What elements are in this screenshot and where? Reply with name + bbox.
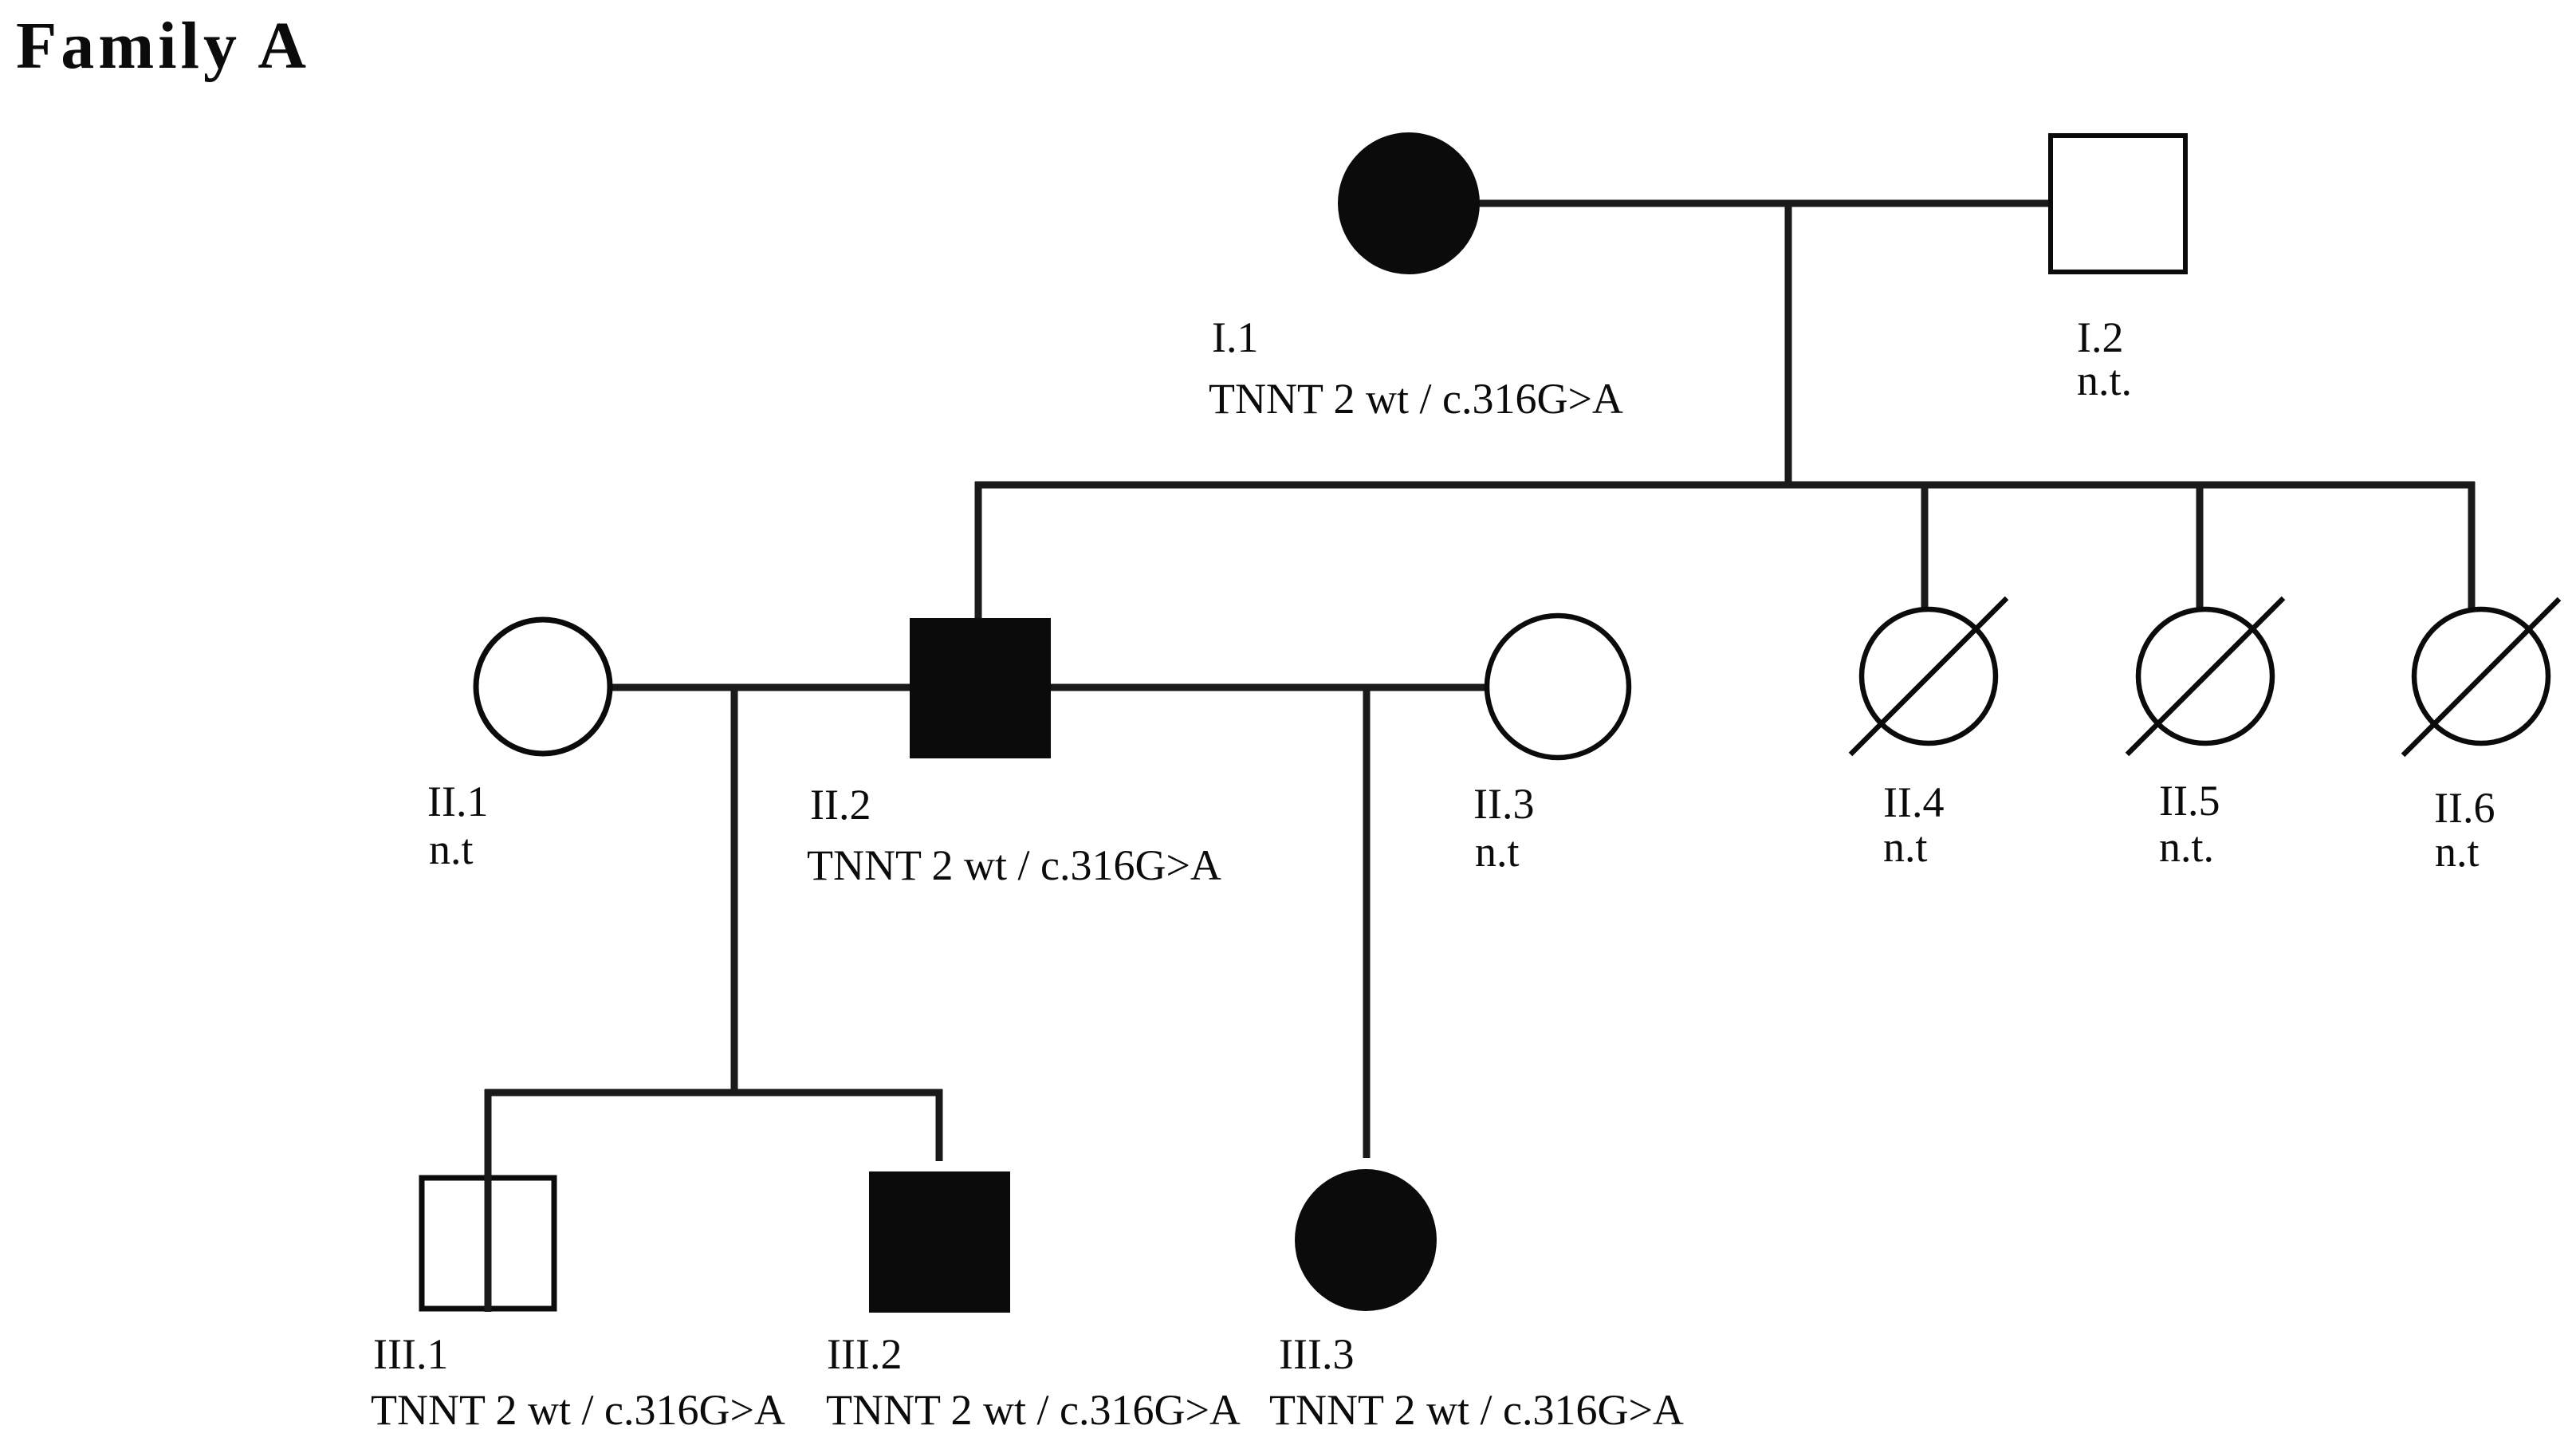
svg-text:III.3: III.3 xyxy=(1279,1330,1354,1378)
svg-text:II.2: II.2 xyxy=(810,781,871,829)
svg-text:II.1: II.1 xyxy=(427,778,488,825)
svg-text:n.t.: n.t. xyxy=(2159,823,2214,871)
svg-text:Family A: Family A xyxy=(16,9,310,83)
svg-text:TNNT 2 wt / c.316G>A: TNNT 2 wt / c.316G>A xyxy=(371,1386,785,1434)
svg-text:n.t: n.t xyxy=(2435,828,2480,876)
svg-text:n.t.: n.t. xyxy=(2077,356,2132,404)
svg-text:TNNT 2 wt / c.316G>A: TNNT 2 wt / c.316G>A xyxy=(807,841,1221,889)
svg-text:II.3: II.3 xyxy=(1473,780,1534,828)
svg-text:I.2: I.2 xyxy=(2077,313,2123,361)
svg-text:TNNT 2 wt / c.316G>A: TNNT 2 wt / c.316G>A xyxy=(1269,1386,1684,1434)
svg-text:II.6: II.6 xyxy=(2434,784,2495,832)
svg-text:III.1: III.1 xyxy=(373,1330,448,1378)
svg-text:n.t: n.t xyxy=(429,825,474,873)
svg-text:II.5: II.5 xyxy=(2159,777,2220,825)
svg-text:n.t: n.t xyxy=(1475,828,1520,876)
svg-text:TNNT 2 wt / c.316G>A: TNNT 2 wt / c.316G>A xyxy=(826,1386,1241,1434)
svg-text:n.t: n.t xyxy=(1883,823,1928,871)
svg-text:II.4: II.4 xyxy=(1883,778,1944,826)
svg-text:TNNT 2 wt / c.316G>A: TNNT 2 wt / c.316G>A xyxy=(1209,375,1623,423)
svg-text:I.1: I.1 xyxy=(1212,313,1258,361)
svg-text:III.2: III.2 xyxy=(827,1330,902,1378)
